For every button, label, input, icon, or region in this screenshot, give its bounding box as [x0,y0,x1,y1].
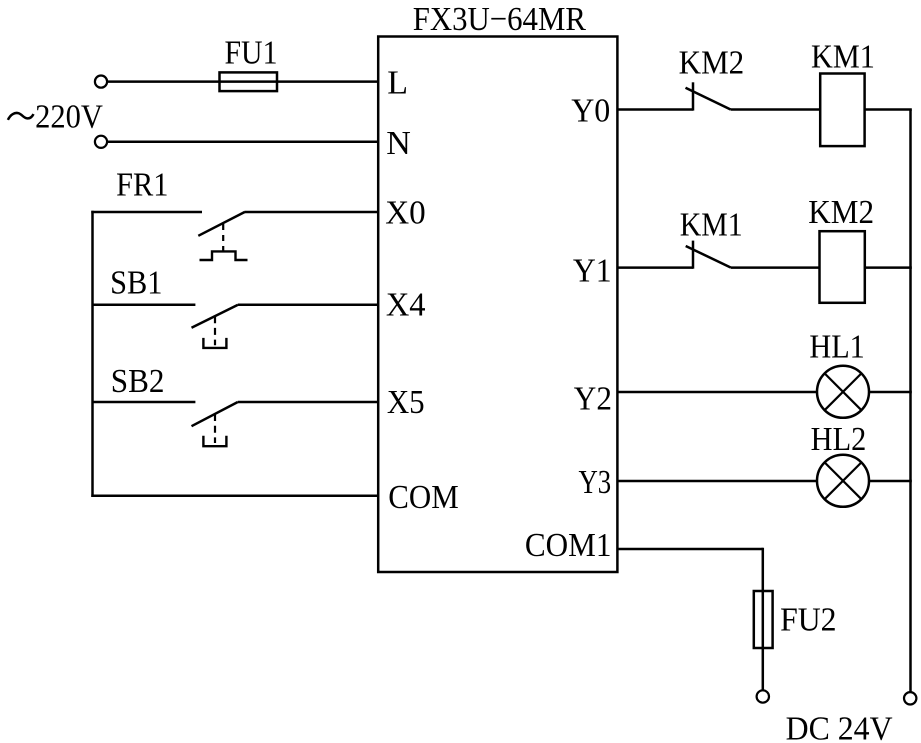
svg-text:KM1: KM1 [811,39,875,76]
svg-text:HL2: HL2 [811,421,867,458]
svg-text:FR1: FR1 [116,167,168,204]
svg-text:N: N [386,125,411,162]
svg-text:HL1: HL1 [809,329,864,366]
svg-text:KM2: KM2 [808,194,874,231]
svg-text:Y1: Y1 [573,253,612,290]
svg-text:Y3: Y3 [578,464,611,501]
svg-text:SB2: SB2 [111,363,165,400]
svg-text:FU2: FU2 [780,602,837,639]
svg-text:X0: X0 [385,194,426,231]
svg-text:FX3U−64MR: FX3U−64MR [413,1,586,38]
svg-text:KM1: KM1 [680,207,743,244]
svg-text:X5: X5 [387,384,425,421]
svg-text:FU1: FU1 [225,35,278,72]
svg-text:220V: 220V [35,98,103,135]
svg-text:COM1: COM1 [525,527,612,564]
svg-text:X4: X4 [386,286,426,323]
svg-text:L: L [387,64,408,101]
svg-text:DC 24V: DC 24V [786,711,893,743]
svg-text:Y0: Y0 [571,93,610,130]
svg-text:SB1: SB1 [110,264,162,301]
svg-text:KM2: KM2 [679,45,745,82]
svg-text:COM: COM [388,479,458,516]
svg-text:Y2: Y2 [574,381,612,418]
